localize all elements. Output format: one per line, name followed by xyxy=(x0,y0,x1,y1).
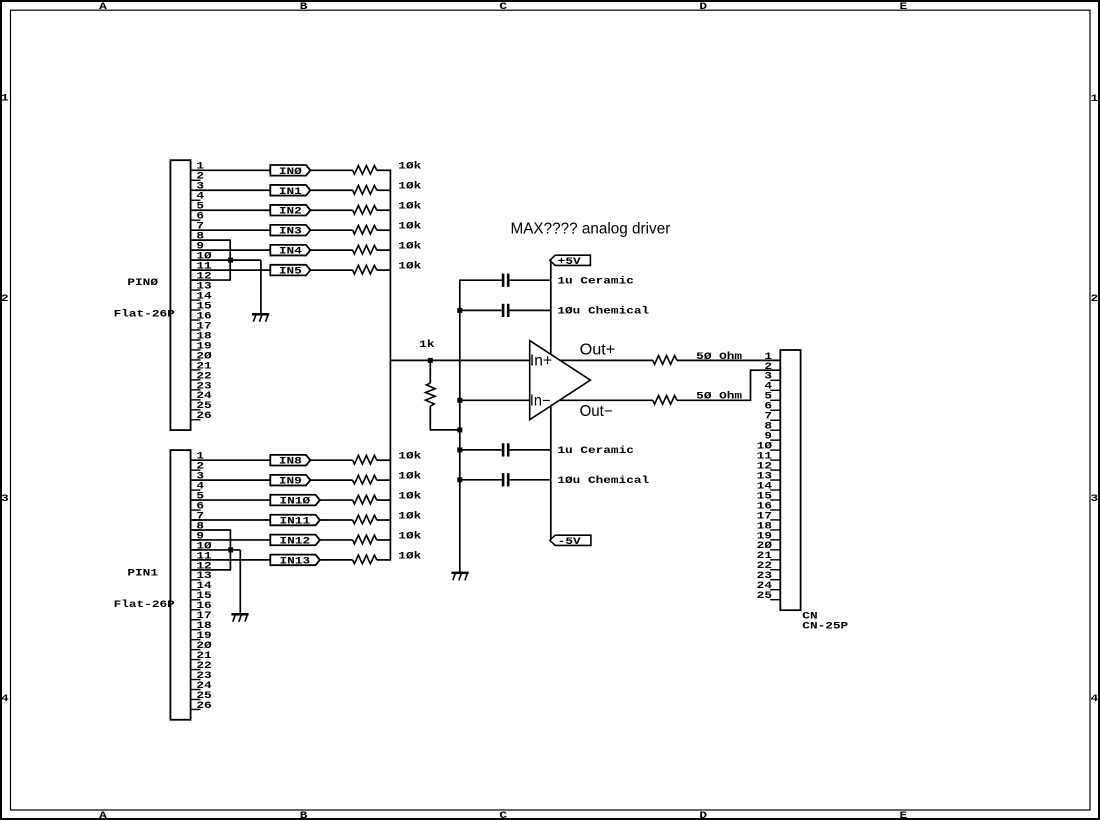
svg-text:D: D xyxy=(699,810,707,820)
PIN1 pin 25 stub and pin number xyxy=(191,698,201,700)
svg-text:1u Ceramic: 1u Ceramic xyxy=(557,445,634,457)
power flag -5V xyxy=(550,535,591,545)
wire PIN0 pin 3 to net flag IN1 xyxy=(191,189,271,191)
CN pin 4 stub and pin number xyxy=(770,389,780,391)
CN pin 8 stub and pin number xyxy=(770,429,780,431)
capacitor 10u chemical (-5V) xyxy=(459,479,502,481)
junction bus / 10u top xyxy=(457,308,462,313)
svg-text:26: 26 xyxy=(196,410,211,422)
PIN0 pin 21 stub and pin number xyxy=(191,369,201,371)
PIN1 pin 2 stub and pin number xyxy=(191,469,201,471)
svg-text:MAX???? analog driver: MAX???? analog driver xyxy=(511,220,671,237)
svg-text:IN5: IN5 xyxy=(279,266,302,278)
wire node In+ (bus to op-amp) xyxy=(390,359,529,361)
PIN0 pin 11 stub and pin number xyxy=(191,269,201,271)
wire IN4 resistor to summing bus xyxy=(377,249,391,251)
svg-text:A: A xyxy=(99,810,108,820)
wire PIN1 tie line vertical xyxy=(229,529,231,570)
wire IN12 resistor to summing bus xyxy=(377,539,391,541)
svg-text:2: 2 xyxy=(1,293,9,305)
PIN0 pin 14 stub and pin number xyxy=(191,299,201,301)
capacitor 1u ceramic (-5V) xyxy=(459,449,502,451)
svg-text:1Øu Chemical: 1Øu Chemical xyxy=(557,306,649,318)
PIN1 pin 23 stub and pin number xyxy=(191,679,201,681)
junction PIN1 pins 8/10/12 tie xyxy=(228,547,233,552)
wire IN10 resistor to summing bus xyxy=(377,499,391,501)
CN pin 15 stub and pin number xyxy=(770,499,780,501)
svg-text:25: 25 xyxy=(757,590,772,602)
svg-text:+5V: +5V xyxy=(558,256,582,268)
ground symbol (PIN1) xyxy=(231,613,248,616)
wire IN1 flag to resistor xyxy=(309,189,353,191)
wire PIN1 pin 1 to net flag IN8 xyxy=(191,459,271,461)
PIN1 pin 18 stub and pin number xyxy=(191,629,201,631)
op-amp U1 MAX???? analog driver xyxy=(530,341,591,420)
svg-text:3: 3 xyxy=(1,493,9,505)
wire PIN1 pin 5 to net flag IN10 xyxy=(191,499,271,501)
CN pin 7 stub and pin number xyxy=(770,419,780,421)
resistor 10k on IN8 xyxy=(353,455,377,464)
svg-text:A: A xyxy=(99,1,108,13)
svg-text:In−: In− xyxy=(530,392,551,409)
PIN1 pin 4 stub and pin number xyxy=(191,489,201,491)
CN pin 18 stub and pin number xyxy=(770,529,780,531)
PIN0 pin 26 stub and pin number xyxy=(191,419,201,421)
PIN0 pin 22 stub and pin number xyxy=(191,379,201,381)
CN pin 24 stub and pin number xyxy=(770,589,780,591)
wire IN1 resistor to summing bus xyxy=(377,189,391,191)
CN pin 3 stub and pin number xyxy=(770,379,780,381)
wire decoupling bus vertical xyxy=(459,280,461,571)
resistor 50 Ohm (Out+) xyxy=(653,356,677,365)
capacitor 1u ceramic (+5V) xyxy=(459,279,502,281)
wire IN2 resistor to summing bus xyxy=(377,209,391,211)
PIN0 pin 6 stub and pin number xyxy=(191,219,201,221)
resistor R 1k xyxy=(426,383,436,406)
wire PIN0 pin 8 to tie line xyxy=(191,239,231,241)
PIN1 pin 24 stub and pin number xyxy=(191,689,201,691)
CN pin 25 stub and pin number xyxy=(770,599,780,601)
svg-text:1Øk: 1Øk xyxy=(398,530,421,542)
svg-text:1Øk: 1Øk xyxy=(398,490,421,502)
svg-text:1u Ceramic: 1u Ceramic xyxy=(557,275,634,287)
svg-text:IN13: IN13 xyxy=(280,555,311,567)
wire IN11 flag to resistor xyxy=(318,519,352,521)
capacitor 10u chemical (+5V) xyxy=(459,309,502,311)
CN pin 22 stub and pin number xyxy=(770,569,780,571)
PIN1 pin 8 stub and pin number xyxy=(191,529,201,531)
PIN0 pin 18 stub and pin number xyxy=(191,339,201,341)
PIN1 pin 22 stub and pin number xyxy=(191,669,201,671)
svg-text:1Øk: 1Øk xyxy=(398,201,421,213)
CN pin 11 stub and pin number xyxy=(770,459,780,461)
net flag IN11 xyxy=(270,515,320,526)
PIN1 pin 26 stub and pin number xyxy=(191,708,201,710)
wire PIN1 pin 3 to net flag IN9 xyxy=(191,479,271,481)
junction bus / 1k xyxy=(457,427,462,432)
svg-text:4: 4 xyxy=(1,693,9,705)
wire PIN1 pin 11 to net flag IN13 xyxy=(191,559,271,561)
svg-text:D: D xyxy=(699,1,707,13)
wire IN5 resistor to summing bus xyxy=(377,269,391,271)
svg-text:CN-25P: CN-25P xyxy=(802,621,848,633)
PIN1 pin 11 stub and pin number xyxy=(191,559,201,561)
wire 1k bottom lead xyxy=(429,406,431,430)
wire IN13 flag to resistor xyxy=(318,559,352,561)
svg-text:1Øk: 1Øk xyxy=(398,221,421,233)
wire IN2 flag to resistor xyxy=(309,209,353,211)
resistor 10k on IN9 xyxy=(353,475,377,484)
svg-text:In+: In+ xyxy=(530,353,552,370)
svg-text:1Øk: 1Øk xyxy=(398,451,421,463)
PIN1 pin 19 stub and pin number xyxy=(191,639,201,641)
svg-text:4: 4 xyxy=(1091,693,1099,705)
wire IN3 resistor to summing bus xyxy=(377,229,391,231)
net flag IN4 xyxy=(270,245,310,256)
resistor 10k on IN10 xyxy=(353,495,377,504)
PIN0 pin 25 stub and pin number xyxy=(191,409,201,411)
junction In+ / R 1k xyxy=(428,358,433,363)
svg-text:B: B xyxy=(300,1,308,13)
PIN1 pin 12 stub and pin number xyxy=(191,569,201,571)
resistor 10k on IN5 xyxy=(353,265,377,274)
CN pin 17 stub and pin number xyxy=(770,519,780,521)
wire PIN0 pin 7 to net flag IN3 xyxy=(191,229,271,231)
junction bus / 10u bottom xyxy=(457,477,462,482)
svg-text:IN12: IN12 xyxy=(280,535,311,547)
svg-text:C: C xyxy=(499,1,507,13)
svg-text:IN9: IN9 xyxy=(279,476,302,488)
PIN0 pin 19 stub and pin number xyxy=(191,349,201,351)
wire IN8 resistor to summing bus xyxy=(377,459,391,461)
svg-text:1Øk: 1Øk xyxy=(398,161,421,173)
net flag IN3 xyxy=(270,225,310,236)
resistor 10k on IN3 xyxy=(353,225,377,234)
svg-text:E: E xyxy=(899,810,907,820)
PIN0 pin 12 stub and pin number xyxy=(191,279,201,281)
svg-text:Flat-26P: Flat-26P xyxy=(114,599,175,611)
CN pin 19 stub and pin number xyxy=(770,539,780,541)
PIN1 pin 7 stub and pin number xyxy=(191,519,201,521)
svg-text:B: B xyxy=(300,810,308,820)
wire IN12 flag to resistor xyxy=(318,539,352,541)
svg-text:26: 26 xyxy=(196,700,211,712)
PIN0 pin 1 stub and pin number xyxy=(191,169,201,171)
PIN0 pin 3 stub and pin number xyxy=(191,189,201,191)
junction PIN0 pins 8/10/12 tie xyxy=(228,258,233,263)
connector CN CN-25P body xyxy=(780,350,800,610)
PIN1 pin 13 stub and pin number xyxy=(191,579,201,581)
svg-text:1Øk: 1Øk xyxy=(398,510,421,522)
PIN0 pin 4 stub and pin number xyxy=(191,199,201,201)
wire Out+ (op-amp to resistor) xyxy=(560,359,653,361)
resistor 10k on IN1 xyxy=(353,185,377,194)
wire summing bus (resistor outputs) xyxy=(389,170,391,560)
CN pin 10 stub and pin number xyxy=(770,449,780,451)
svg-text:1Øk: 1Øk xyxy=(398,261,421,273)
CN pin 20 stub and pin number xyxy=(770,549,780,551)
PIN0 pin 8 stub and pin number xyxy=(191,239,201,241)
net flag IN1 xyxy=(270,185,310,196)
PIN1 pin 15 stub and pin number xyxy=(191,599,201,601)
svg-text:IN1Ø: IN1Ø xyxy=(280,496,311,508)
CN pin 14 stub and pin number xyxy=(770,489,780,491)
resistor 10k on IN11 xyxy=(353,515,377,524)
wire node In- (decoupling bus to op-amp) xyxy=(460,399,530,401)
PIN1 pin 3 stub and pin number xyxy=(191,479,201,481)
CN pin 21 stub and pin number xyxy=(770,559,780,561)
wire IN3 flag to resistor xyxy=(309,229,353,231)
svg-text:2: 2 xyxy=(1091,293,1099,305)
PIN1 pin 6 stub and pin number xyxy=(191,509,201,511)
wire PIN1 ground drop vertical xyxy=(239,550,241,613)
svg-text:PINØ: PINØ xyxy=(127,277,158,289)
svg-text:1: 1 xyxy=(1091,93,1099,105)
net flag IN12 xyxy=(270,535,320,546)
svg-text:1Øk: 1Øk xyxy=(398,241,421,253)
PIN1 pin 20 stub and pin number xyxy=(191,649,201,651)
svg-text:C: C xyxy=(499,810,507,820)
svg-text:1Øk: 1Øk xyxy=(398,181,421,193)
wire PIN0 pin 9 to net flag IN4 xyxy=(191,249,271,251)
PIN0 pin 13 stub and pin number xyxy=(191,289,201,291)
svg-text:E: E xyxy=(899,1,907,13)
PIN1 pin 14 stub and pin number xyxy=(191,589,201,591)
wire 1k top lead xyxy=(429,360,431,383)
svg-text:Flat-26P: Flat-26P xyxy=(114,308,175,320)
wire PIN0 ground drop vertical xyxy=(260,260,262,313)
PIN0 pin 5 stub and pin number xyxy=(191,209,201,211)
svg-text:1: 1 xyxy=(1,93,9,105)
wire IN10 flag to resistor xyxy=(318,499,352,501)
svg-text:1Øk: 1Øk xyxy=(398,550,421,562)
PIN1 pin 16 stub and pin number xyxy=(191,609,201,611)
CN pin 13 stub and pin number xyxy=(770,479,780,481)
net flag IN10 xyxy=(270,495,320,506)
net flag IN13 xyxy=(270,555,320,566)
PIN0 pin 16 stub and pin number xyxy=(191,319,201,321)
wire PIN0 tie line vertical xyxy=(229,239,231,280)
wire Out+ resistor to CN pin 1 xyxy=(677,359,780,361)
wire Out- resistor to CN pin 2 xyxy=(677,370,780,400)
PIN1 pin 17 stub and pin number xyxy=(191,619,201,621)
resistor 10k on IN2 xyxy=(353,205,377,214)
svg-text:-5V: -5V xyxy=(558,536,582,548)
wire PIN0 pin 10 to ground drop xyxy=(191,259,261,261)
PIN1 pin 5 stub and pin number xyxy=(191,499,201,501)
power flag +5V xyxy=(550,255,591,265)
svg-text:IN4: IN4 xyxy=(279,246,302,258)
PIN0 pin 7 stub and pin number xyxy=(191,229,201,231)
wire PIN1 pin 8 to tie line xyxy=(191,529,231,531)
PIN0 pin 17 stub and pin number xyxy=(191,329,201,331)
svg-text:Out+: Out+ xyxy=(580,342,616,359)
svg-text:PIN1: PIN1 xyxy=(127,568,158,580)
svg-text:1k: 1k xyxy=(419,339,434,351)
wire PIN0 pin 11 to net flag IN5 xyxy=(191,269,271,271)
wire PIN0 pin 12 to tie line xyxy=(191,279,231,281)
wire Out- (op-amp to resistor) xyxy=(560,399,653,401)
junction bus / In- xyxy=(457,398,462,403)
CN pin 9 stub and pin number xyxy=(770,439,780,441)
resistor 50 Ohm (Out-) xyxy=(653,396,677,405)
PIN0 pin 15 stub and pin number xyxy=(191,309,201,311)
svg-text:INØ: INØ xyxy=(279,166,302,178)
wire IN9 flag to resistor xyxy=(309,479,353,481)
svg-text:1Øk: 1Øk xyxy=(398,471,421,483)
wire PIN1 pin 12 to tie line xyxy=(191,569,231,571)
PIN1 pin 1 stub and pin number xyxy=(191,459,201,461)
PIN0 pin 2 stub and pin number xyxy=(191,179,201,181)
resistor 10k on IN0 xyxy=(353,166,377,175)
svg-text:3: 3 xyxy=(1091,493,1099,505)
wire IN0 resistor to summing bus xyxy=(377,169,391,171)
wire IN13 resistor to summing bus xyxy=(377,559,391,561)
ground symbol (PIN0) xyxy=(252,313,269,316)
PIN0 pin 9 stub and pin number xyxy=(191,249,201,251)
CN pin 6 stub and pin number xyxy=(770,409,780,411)
svg-text:IN2: IN2 xyxy=(279,206,302,218)
resistor 10k on IN12 xyxy=(353,535,377,544)
wire IN8 flag to resistor xyxy=(309,459,353,461)
PIN1 pin 21 stub and pin number xyxy=(191,659,201,661)
CN pin 5 stub and pin number xyxy=(770,399,780,401)
wire IN9 resistor to summing bus xyxy=(377,479,391,481)
wire IN11 resistor to summing bus xyxy=(377,519,391,521)
PIN0 pin 10 stub and pin number xyxy=(191,259,201,261)
net flag IN5 xyxy=(270,265,310,276)
CN pin 16 stub and pin number xyxy=(770,509,780,511)
wire IN0 flag to resistor xyxy=(309,169,353,171)
CN pin 12 stub and pin number xyxy=(770,469,780,471)
svg-text:IN11: IN11 xyxy=(280,516,311,528)
wire PIN0 pin 5 to net flag IN2 xyxy=(191,209,271,211)
connector PIN0 Flat-26P body xyxy=(170,160,190,430)
PIN1 pin 10 stub and pin number xyxy=(191,549,201,551)
net flag IN9 xyxy=(270,475,310,486)
wire PIN0 pin 1 to net flag IN0 xyxy=(191,169,271,171)
PIN0 pin 20 stub and pin number xyxy=(191,359,201,361)
ground symbol (decoupling bus) xyxy=(451,572,468,575)
svg-text:IN1: IN1 xyxy=(279,186,302,198)
svg-text:IN8: IN8 xyxy=(279,456,302,468)
wire IN5 flag to resistor xyxy=(309,269,353,271)
wire PIN1 pin 9 to net flag IN12 xyxy=(191,539,271,541)
wire PIN1 pin 10 to ground drop xyxy=(191,549,241,551)
svg-text:1Øu Chemical: 1Øu Chemical xyxy=(557,475,649,487)
svg-text:IN3: IN3 xyxy=(279,226,302,238)
PIN0 pin 23 stub and pin number xyxy=(191,389,201,391)
svg-text:Out−: Out− xyxy=(580,403,613,420)
CN pin 23 stub and pin number xyxy=(770,579,780,581)
wire -5V supply vertical xyxy=(550,406,552,540)
wire IN4 flag to resistor xyxy=(309,249,353,251)
wire PIN1 pin 7 to net flag IN11 xyxy=(191,519,271,521)
net flag IN8 xyxy=(270,455,310,466)
resistor 10k on IN13 xyxy=(353,555,377,564)
net flag IN0 xyxy=(270,165,310,176)
connector PIN1 Flat-26P body xyxy=(170,450,190,720)
wire +5V supply vertical xyxy=(550,260,552,354)
net flag IN2 xyxy=(270,205,310,216)
junction bus / 1u bottom xyxy=(457,447,462,452)
PIN1 pin 9 stub and pin number xyxy=(191,539,201,541)
PIN0 pin 24 stub and pin number xyxy=(191,399,201,401)
resistor 10k on IN4 xyxy=(353,245,377,254)
